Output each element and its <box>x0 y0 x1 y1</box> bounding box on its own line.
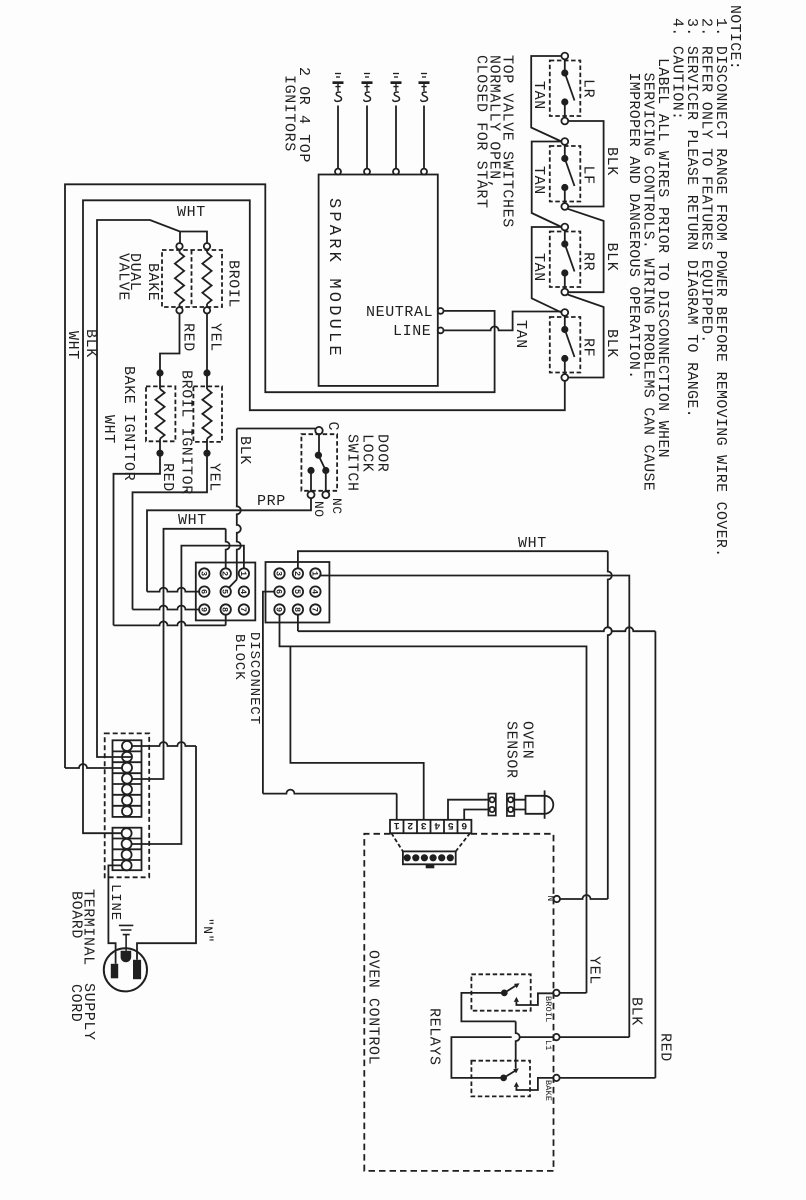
svg-text:BAKE: BAKE <box>144 263 161 301</box>
svg-text:4: 4 <box>238 589 248 594</box>
oven control connector strip pins 1-6 <box>390 820 471 833</box>
oven control terminal N <box>554 896 560 902</box>
wire oven control connector 5 to sensor <box>448 800 488 820</box>
svg-text:1: 1 <box>394 819 400 830</box>
oven control terminal BAKE <box>553 1075 559 1081</box>
svg-text:9: 9 <box>274 607 284 612</box>
svg-text:7: 7 <box>238 607 248 612</box>
wire disconnect pin 9 branch to oven control connector 3 <box>290 646 423 819</box>
door lock switch arm <box>318 455 325 470</box>
svg-text:BLK: BLK <box>603 243 620 272</box>
junction node bake ignitor bottom <box>157 451 162 456</box>
wire BLK door lock C to disconnect pin 5 <box>237 428 315 430</box>
relay bake NC contact arrow <box>514 1082 519 1087</box>
wire TAN bus zigzag (switch commons) <box>531 56 561 142</box>
top valve switch LR <box>561 53 568 60</box>
svg-text:BLK: BLK <box>236 436 253 465</box>
svg-text:BLOCK: BLOCK <box>231 634 247 681</box>
terminal board contact 2 <box>122 752 132 762</box>
wire ignitor 1 to spark module <box>337 106 339 169</box>
terminal board line contact 4 <box>122 860 132 870</box>
wire TAN from spark module LINE to RF switch <box>444 312 562 331</box>
disconnect pin 4 (right) <box>310 586 320 596</box>
junction node broil ignitor bottom <box>204 451 209 456</box>
terminal board line contact 2 <box>122 839 132 849</box>
disconnect block left half <box>196 563 256 621</box>
svg-text:1: 1 <box>238 571 248 576</box>
svg-text:NC: NC <box>329 498 344 515</box>
svg-text:LINE: LINE <box>107 884 123 921</box>
svg-text:WHT: WHT <box>100 415 117 444</box>
disconnect pin 3 (right) <box>274 568 284 578</box>
svg-text:WHT: WHT <box>64 331 81 360</box>
svg-text:6: 6 <box>274 589 284 594</box>
top valve switch RF <box>561 309 568 316</box>
door lock terminal NO <box>308 491 315 498</box>
svg-text:BOARD: BOARD <box>68 891 85 939</box>
svg-text:NO: NO <box>311 501 326 518</box>
disconnect pin 2 (left) <box>221 568 231 578</box>
svg-text:NEUTRAL: NEUTRAL <box>366 304 433 321</box>
svg-text:RF: RF <box>580 338 597 357</box>
spark module U1 box <box>319 175 438 386</box>
oven control terminal L1 <box>553 1034 559 1040</box>
svg-text:3: 3 <box>274 571 284 576</box>
svg-text:YEL: YEL <box>586 956 603 985</box>
svg-text:BROIL: BROIL <box>543 996 553 1023</box>
wire ignitor 2 to spark module <box>366 106 368 169</box>
supply cord plug <box>104 948 147 991</box>
terminal board box <box>105 733 150 877</box>
svg-text:3: 3 <box>198 571 208 576</box>
terminal board contact 7 <box>122 806 132 816</box>
disconnect pin 5 (left) <box>221 586 231 596</box>
terminal board contact 6 <box>122 795 132 805</box>
relay broil common <box>502 990 507 995</box>
svg-text:DISCONNECT: DISCONNECT <box>246 632 262 725</box>
svg-text:PRP: PRP <box>257 493 286 510</box>
disconnect pin 8 (left) <box>221 604 231 614</box>
svg-text:RELAYS: RELAYS <box>426 1008 443 1066</box>
disconnect pin 7 (left) <box>239 604 249 614</box>
svg-text:WHT: WHT <box>178 512 207 529</box>
dual valve BAKE coil <box>176 243 182 249</box>
wire RED bake ignitor to disconnect pin 8 <box>114 456 161 626</box>
oven control ribbon connector <box>391 833 470 851</box>
terminal board contact 3 <box>122 763 132 773</box>
svg-text:8: 8 <box>220 607 230 612</box>
wire BLK disconnect pin 1 to oven control L1 <box>321 576 630 1038</box>
svg-text:5: 5 <box>220 589 230 594</box>
disconnect pin 6 (right) <box>274 586 284 596</box>
wire YEL valve to broil ignitor <box>206 314 208 371</box>
svg-text:4: 4 <box>309 589 319 594</box>
svg-text:9: 9 <box>198 607 208 612</box>
terminal board line contact 3 <box>122 850 132 860</box>
svg-text:5: 5 <box>292 589 302 594</box>
svg-text:2: 2 <box>407 819 413 830</box>
disconnect pin 7 (right) <box>310 604 320 614</box>
relay broil NC contact arrow <box>514 997 519 1002</box>
svg-text:TAN: TAN <box>530 166 547 195</box>
wire RED valve to bake ignitor <box>160 314 180 371</box>
svg-text:2: 2 <box>220 571 230 576</box>
broil ignitor box <box>193 386 222 442</box>
door lock switch box <box>301 434 337 491</box>
wire BLK bus (RF switch to terminal board) <box>83 200 565 833</box>
svg-text:VALVE: VALVE <box>115 253 132 301</box>
svg-text:TAN: TAN <box>530 81 547 110</box>
terminal NEUTRAL <box>438 308 444 314</box>
door lock terminal NC <box>322 491 329 498</box>
svg-text:TAN: TAN <box>530 253 547 282</box>
surface ignitor electrode 4 <box>421 73 427 75</box>
oven sensor probe <box>526 796 545 814</box>
relay broil coil feed wire <box>461 993 515 1022</box>
disconnect pin 8 (right) <box>293 604 303 614</box>
svg-text:"N": "N" <box>200 918 215 943</box>
disconnect pin 6 (left) <box>199 586 209 596</box>
svg-text:LINE: LINE <box>393 323 431 340</box>
door lock terminal C <box>315 427 322 434</box>
disconnect pin 1 (right) <box>310 568 320 578</box>
disconnect pin 4 (left) <box>239 586 249 596</box>
bake ignitor box <box>146 386 175 441</box>
svg-text:WHT: WHT <box>177 204 206 221</box>
oven sensor plug half A <box>488 794 495 816</box>
relay broil box <box>471 974 530 1010</box>
svg-text:OVEN: OVEN <box>519 721 536 759</box>
svg-text:6: 6 <box>461 819 467 830</box>
wire N terminal board to supply cord <box>132 742 196 746</box>
terminal board contact 1 <box>122 741 132 751</box>
ground symbol <box>119 925 133 950</box>
svg-text:7: 7 <box>309 607 319 612</box>
wire sensor plug to probe <box>514 800 526 810</box>
svg-text:YEL: YEL <box>206 463 223 492</box>
disconnect pin 5 (right) <box>293 586 303 596</box>
terminal board contact 5 <box>122 784 132 794</box>
gas dual valve box <box>162 250 222 307</box>
svg-text:BROIL: BROIL <box>225 260 242 308</box>
switch RR arm <box>565 244 575 272</box>
relay bake box <box>471 1061 530 1097</box>
svg-text:5: 5 <box>448 819 454 830</box>
switch RF arm <box>565 330 575 358</box>
wire BLK disconnect pin 1 to terminal board <box>132 546 244 844</box>
switch LR arm <box>565 73 575 101</box>
svg-text:TAN: TAN <box>512 320 529 349</box>
svg-text:SWITCH: SWITCH <box>344 434 361 492</box>
terminal board line contact 1 <box>122 828 132 838</box>
terminal LINE <box>438 328 444 334</box>
oven control terminal BROIL <box>553 990 559 996</box>
wire WHT disconnect pin 2 to oven control N <box>298 551 608 568</box>
junction node bake ignitor top <box>157 370 162 375</box>
disconnect block right half <box>266 562 330 623</box>
svg-text:RED: RED <box>657 1033 674 1062</box>
terminal board lower strip <box>113 828 142 871</box>
terminal board contact 4 <box>122 774 132 784</box>
surface ignitor electrode 1 <box>335 73 341 75</box>
wire ignitor 3 to spark module <box>395 106 397 169</box>
junction node broil ignitor top <box>204 370 209 375</box>
wire L1 to relays <box>451 1037 553 1078</box>
relay bake arm <box>504 1071 515 1078</box>
top valve switch LF <box>561 138 568 145</box>
svg-text:IMPROPER AND DANGEROUS OPERATI: IMPROPER AND DANGEROUS OPERATION. <box>625 73 642 380</box>
svg-text:LF: LF <box>580 166 597 185</box>
svg-text:RR: RR <box>580 252 597 271</box>
relay bake common <box>501 1075 506 1080</box>
switch LF arm <box>565 159 575 187</box>
svg-text:BLK: BLK <box>82 329 99 358</box>
svg-text:CLOSED FOR START: CLOSED FOR START <box>473 55 490 209</box>
surface ignitor electrode 2 <box>364 73 370 75</box>
svg-text:4: 4 <box>434 819 440 830</box>
svg-text:BLK: BLK <box>603 147 620 176</box>
svg-text:LR: LR <box>580 79 597 98</box>
wire YEL disconnect pin 9 to oven control BROIL <box>280 615 587 993</box>
spark module output terminals <box>335 169 341 175</box>
svg-text:3: 3 <box>421 819 427 830</box>
wire ignitor 4 to spark module <box>423 106 425 169</box>
svg-text:2: 2 <box>292 571 302 576</box>
svg-text:8: 8 <box>292 607 302 612</box>
svg-text:C: C <box>324 422 341 432</box>
top valve switch RR <box>561 224 568 231</box>
wire disconnect pin 6 to oven control connector 1 <box>263 592 274 794</box>
svg-text:BROIL IGNITOR: BROIL IGNITOR <box>178 370 195 495</box>
svg-text:BAKE: BAKE <box>543 1080 553 1101</box>
svg-text:YEL: YEL <box>207 323 224 352</box>
wire WHT neutral bus (spark module NEUTRAL to terminal board) <box>65 184 495 768</box>
svg-text:IGNITORS: IGNITORS <box>281 75 298 152</box>
wire PRP door lock NO to disconnect pin 6 <box>147 498 311 591</box>
surface ignitor electrode 3 <box>393 73 399 75</box>
svg-text:OVEN CONTROL: OVEN CONTROL <box>365 950 382 1065</box>
svg-text:BLK: BLK <box>603 329 620 358</box>
wire WHT disconnect pin 2 to terminal board <box>132 529 226 779</box>
wire YEL broil ignitor to disconnect pin 9 <box>133 456 208 610</box>
svg-text:RED: RED <box>180 323 197 352</box>
disconnect pin 2 (right) <box>293 568 303 578</box>
svg-text:SPARK MODULE: SPARK MODULE <box>324 198 343 359</box>
wire LINE terminal board to supply cord <box>108 865 121 963</box>
disconnect pin 9 (left) <box>199 604 209 614</box>
svg-text:L1: L1 <box>543 1040 553 1051</box>
svg-text:N: N <box>545 896 556 902</box>
svg-text:BAKE IGNITOR: BAKE IGNITOR <box>120 366 137 481</box>
svg-text:RED: RED <box>159 463 176 492</box>
disconnect pin 9 (right) <box>274 604 284 614</box>
svg-text:1: 1 <box>309 571 319 576</box>
svg-text:6: 6 <box>198 589 208 594</box>
oven control board box <box>364 834 553 1171</box>
wire BLK switch chain <box>568 121 603 207</box>
svg-text:CORD: CORD <box>67 984 84 1022</box>
wire RED disconnect pin 8 to oven control BAKE <box>297 615 299 631</box>
svg-text:WHT: WHT <box>518 535 547 552</box>
svg-text:SENSOR: SENSOR <box>503 721 520 779</box>
oven sensor plug half B <box>507 794 514 816</box>
svg-text:BLK: BLK <box>628 997 645 1026</box>
disconnect pin 1 (left) <box>239 568 249 578</box>
terminal board upper strip <box>113 740 142 817</box>
wire oven control connector 6 to sensor <box>464 810 487 820</box>
disconnect pin 3 (left) <box>199 568 209 578</box>
relay broil arm <box>504 985 516 993</box>
dual valve BROIL coil <box>204 243 210 249</box>
wire WHT dual valve feed <box>97 220 207 757</box>
